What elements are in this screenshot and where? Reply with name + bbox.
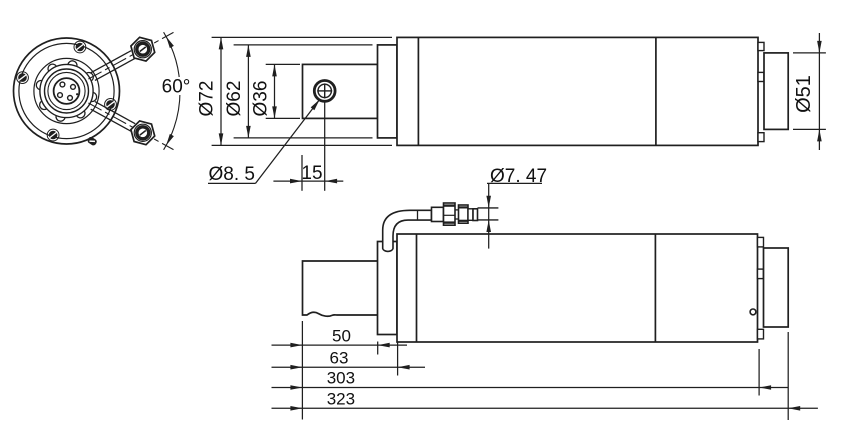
ext line Ø72 bottom [212,144,392,146]
leader Ø8.5 [208,98,322,185]
front view ring circle [45,69,89,113]
svg-text:Ø36: Ø36 [250,81,271,117]
svg-text:303: 303 [327,369,355,388]
gland hex nut 1 [444,203,456,225]
svg-text:323: 323 [327,390,355,409]
bottom view nose section with break line [303,261,378,316]
ext line 303 [758,349,760,396]
dimension Ø51 [793,33,826,150]
svg-text:63: 63 [330,348,349,367]
svg-text:50: 50 [332,326,351,345]
svg-text:Ø72: Ø72 [197,81,218,117]
dimension 323 [272,390,818,411]
bottom view body divider [654,234,656,342]
top view flange Ø62 [378,45,398,138]
ext line Ø72 top [212,36,392,38]
dimension 303 [272,369,789,390]
front view connector barrel [54,78,80,104]
lower 60-degree leg line [88,103,173,150]
front flange screw 1 [105,99,117,111]
ext line 323 [787,332,789,420]
ext line nose tip [301,321,303,420]
top view end cap Ø51 [764,53,788,129]
svg-text:Ø62: Ø62 [224,81,245,117]
dimension 50 [272,326,408,347]
front flange screw 3 [17,72,29,84]
connector pins [58,82,79,100]
60 degree label [162,77,193,98]
ext line Ø62 top [234,44,373,46]
bottom view front cap divider [416,234,418,342]
upper stud lines [91,51,131,73]
ext line Ø36 bottom [266,117,300,119]
connector tube between nuts [455,209,459,211]
ext line Ø36 top [266,63,300,65]
threaded hole Ø8.5 [314,81,335,102]
dimension 15 [273,155,343,191]
hole centerline down [324,103,326,191]
lower stud lines [95,102,135,124]
cable Ø7.47 [478,207,499,209]
front view outer flange circle Ø72 [14,38,120,144]
bottom view tab upper [758,237,764,247]
arc arrowhead upper [164,35,174,48]
front flange screw 2 [47,129,59,141]
dimension Ø7.47 [486,166,547,249]
top view body divider [655,37,657,145]
tube seam [417,210,419,220]
dimension Ø72 [197,37,224,145]
body screw [750,309,756,315]
top view nose section Ø36 [303,64,378,118]
gland collar [432,207,444,221]
ext line 63 [397,342,399,376]
gland washer [468,209,473,221]
front view boss circle [34,58,99,123]
front flange screw 4 [74,41,86,53]
top view main body Ø72 [397,37,758,145]
front view notched lock ring [36,61,96,121]
bottom view flange Ø62 [378,242,398,335]
bottom view tab middle [758,269,764,279]
upper hex bolt [131,37,155,61]
bottom view main body Ø72 [397,234,758,342]
ext line 50 [377,342,379,355]
svg-text:15: 15 [301,163,322,184]
top view tab middle [758,72,764,81]
svg-text:Ø8. 5: Ø8. 5 [209,164,255,185]
bottom view tab lower [758,329,764,339]
gland step [473,209,478,221]
svg-text:60°: 60° [162,77,191,98]
elbow cable gland tube [383,210,432,251]
dimension Ø36 [250,64,277,118]
gland hex nut 2 [459,205,469,223]
ext line Ø62 bottom [234,137,373,139]
upper 60-degree leg line [88,32,173,79]
top view front cap divider [417,37,419,145]
arc arrowhead lower [164,134,174,147]
top view tab lower [758,133,764,142]
front view ring circle 2 [48,72,85,109]
dimension 63 [272,348,426,369]
top view tab upper [758,42,764,50]
front view inner rim circle [19,43,114,138]
rim clamp tab [87,136,98,147]
bottom view end cap Ø51 [764,248,789,327]
60-degree dimension arc [164,32,180,150]
svg-text:Ø51: Ø51 [793,75,815,113]
lower hex bolt [131,121,155,145]
dimension Ø62 [224,45,251,138]
